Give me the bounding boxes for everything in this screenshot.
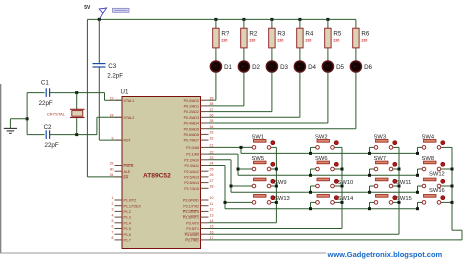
wire switch link row4 col2 xyxy=(334,201,342,203)
switch SW7 xyxy=(374,156,397,171)
crystal X1 xyxy=(70,109,85,117)
wire crystal top xyxy=(76,93,78,110)
switch SW3 xyxy=(374,134,397,149)
svg-text:1: 1 xyxy=(112,196,114,200)
svg-text:SW14: SW14 xyxy=(338,196,355,202)
junction C2-crystal xyxy=(75,133,78,136)
pin 11 P3.1/TXD xyxy=(183,202,213,208)
switch SW4 xyxy=(422,134,445,149)
wire switch link row4 col4 xyxy=(441,201,452,203)
svg-text:P1.0/T2: P1.0/T2 xyxy=(124,199,137,203)
wire jog col4 row3 xyxy=(418,186,423,192)
svg-text:10: 10 xyxy=(210,196,214,200)
svg-text:P2.0/A8: P2.0/A8 xyxy=(186,146,199,150)
svg-text:31: 31 xyxy=(110,173,114,177)
svg-text:P3.1/TXD: P3.1/TXD xyxy=(183,204,199,208)
junction rail R4 xyxy=(298,18,301,21)
pin 27 P2.6/A14 xyxy=(184,179,213,185)
pin 13 P3.3/INT1 xyxy=(183,213,214,219)
wire rail to R2 xyxy=(243,19,245,28)
wire R? to D1 xyxy=(215,48,217,61)
junction C1-crystal xyxy=(75,91,78,94)
svg-text:220: 220 xyxy=(277,39,283,43)
pin 30 ALE xyxy=(110,167,131,173)
wire ground tap xyxy=(10,119,27,128)
wire row3 bus xyxy=(231,191,418,193)
label AT89C52 xyxy=(143,172,171,179)
wire switch link row1 col4 xyxy=(441,146,452,148)
wire jog col3 row1 xyxy=(370,147,375,153)
resistor R2 xyxy=(241,28,258,48)
svg-text:P0.0/AD0: P0.0/AD0 xyxy=(184,99,199,103)
svg-text:19: 19 xyxy=(110,96,114,100)
svg-text:P2.4/A12: P2.4/A12 xyxy=(184,170,199,174)
wire P2.2 row3 feed xyxy=(209,160,253,193)
svg-text:P1.5: P1.5 xyxy=(124,227,131,231)
svg-text:R?: R? xyxy=(221,30,229,37)
svg-text:RST: RST xyxy=(124,139,132,143)
wire jog col2 row2 xyxy=(311,169,316,175)
svg-text:R2: R2 xyxy=(249,30,257,37)
wire column 3 to P3.6 xyxy=(209,147,400,234)
pin 16 P3.6/WR xyxy=(185,230,214,236)
switch SW8 xyxy=(422,156,445,171)
wire R2 to D2 xyxy=(243,48,245,61)
wire jog col2 row1 xyxy=(311,147,316,153)
svg-text:P3.5/T1: P3.5/T1 xyxy=(186,227,199,231)
pin 24 P2.3/A11 xyxy=(184,162,213,168)
wire P2.1 row2 feed xyxy=(209,154,253,175)
wire switch link row2 col3 xyxy=(393,168,399,170)
pin 28 P2.7/A15 xyxy=(184,185,213,191)
svg-text:P1.1/T2EX: P1.1/T2EX xyxy=(124,204,142,208)
wire C1 row xyxy=(27,93,122,101)
pin 19 XTAL1 xyxy=(110,96,135,102)
pin 32 P0.7/AD7 xyxy=(184,136,214,142)
svg-text:SW2: SW2 xyxy=(315,134,328,140)
svg-text:SW5: SW5 xyxy=(252,156,265,162)
svg-text:P3.0/RXD: P3.0/RXD xyxy=(183,199,199,203)
junction bus4 col2 xyxy=(309,207,312,210)
svg-text:26: 26 xyxy=(210,173,214,177)
junction bus1 col4 xyxy=(416,152,419,155)
junction col4 row4 xyxy=(451,201,454,204)
svg-text:SW4: SW4 xyxy=(422,134,435,140)
switch SW14 xyxy=(316,195,354,205)
svg-text:P0.6/AD6: P0.6/AD6 xyxy=(184,133,199,137)
switch SW5 xyxy=(252,156,275,171)
junction row3 feed xyxy=(230,185,233,188)
svg-text:P0.2/AD2: P0.2/AD2 xyxy=(184,110,199,114)
wire row2 bus xyxy=(238,174,418,176)
resistor R3 xyxy=(269,28,286,48)
junction rail R1 xyxy=(214,18,217,21)
junction col2 row3 xyxy=(341,185,344,188)
wire rail to EA pin31 xyxy=(87,19,122,177)
junction bus1 col3 xyxy=(368,152,371,155)
pin 35 P0.4/AD4 xyxy=(184,119,214,125)
ground xyxy=(4,128,17,133)
wire P2.0 row1 feed xyxy=(209,147,253,153)
svg-text:ALE: ALE xyxy=(124,170,131,174)
svg-text:SW15: SW15 xyxy=(396,196,412,202)
wire switch link row2 col1 xyxy=(271,168,277,170)
svg-text:R3: R3 xyxy=(277,30,285,37)
label C2 xyxy=(44,124,59,149)
svg-text:U1: U1 xyxy=(121,89,129,96)
svg-text:P1.7: P1.7 xyxy=(124,239,131,243)
svg-text:SW3: SW3 xyxy=(374,134,387,140)
junction bus2 col2 xyxy=(309,174,312,177)
svg-text:C3: C3 xyxy=(108,63,116,70)
svg-text:30: 30 xyxy=(110,167,114,171)
junction bus4 col4 xyxy=(416,207,419,210)
pin 18 XTAL2 xyxy=(110,114,135,120)
IC U1 AT89C52 body xyxy=(122,97,201,249)
junction rail R3 xyxy=(270,18,273,21)
svg-text:220: 220 xyxy=(333,39,339,43)
svg-text:P1.3: P1.3 xyxy=(124,216,131,220)
junction col1 row4 xyxy=(275,201,278,204)
svg-text:32: 32 xyxy=(210,136,214,140)
wire rail to R3 xyxy=(271,19,273,28)
svg-text:P3.3/INT1: P3.3/INT1 xyxy=(183,216,199,220)
svg-text:P2.3/A11: P2.3/A11 xyxy=(184,164,199,168)
pin 2 P1.1/T2EX xyxy=(112,202,142,208)
pin 7 P1.6 xyxy=(112,230,131,236)
svg-text:27: 27 xyxy=(210,179,214,183)
junction col4 row3 xyxy=(451,185,454,188)
wire jog col3 row4 xyxy=(370,202,375,208)
switch SW13 xyxy=(252,195,290,205)
svg-text:29: 29 xyxy=(110,162,114,166)
wire D3 to P0.2 xyxy=(209,72,272,112)
sheet edge line xyxy=(0,84,326,253)
junction ground tap xyxy=(26,117,29,120)
pin 23 P2.2/A10 xyxy=(184,156,213,162)
pin 22 P2.1/A9 xyxy=(186,150,213,156)
pin 31 EA xyxy=(110,173,129,179)
junction col3 row3 xyxy=(398,185,401,188)
wire D6 to P0.5 xyxy=(209,72,356,129)
pin 1 P1.0/T2 xyxy=(112,196,137,202)
wire R4 to D4 xyxy=(299,48,301,61)
wire D2 to P0.1 xyxy=(209,72,244,106)
junction 5V xyxy=(98,18,101,21)
svg-text:SW6: SW6 xyxy=(315,156,328,162)
wire switch link row4 col3 xyxy=(393,201,399,203)
wire crystal bottom xyxy=(76,118,78,135)
capacitor C2 xyxy=(46,130,49,139)
LED D6 xyxy=(350,61,372,72)
wire C2 row xyxy=(27,117,122,134)
wire C3 to RST pin9 xyxy=(99,67,122,140)
svg-text:R6: R6 xyxy=(361,30,369,37)
svg-text:12: 12 xyxy=(210,208,214,212)
svg-text:SW1: SW1 xyxy=(252,134,265,140)
pin 14 P3.4/T0 xyxy=(186,219,213,225)
resistor R? xyxy=(213,28,230,48)
svg-text:2.2pF: 2.2pF xyxy=(107,73,123,80)
svg-text:EA: EA xyxy=(124,176,129,180)
pin 25 P2.4/A12 xyxy=(184,167,213,173)
svg-text:2: 2 xyxy=(112,202,114,206)
wire R6 to D6 xyxy=(355,48,357,61)
junction col1 row2 xyxy=(275,168,278,171)
wire D5 to P0.4 xyxy=(209,72,328,123)
svg-text:6: 6 xyxy=(112,225,114,229)
wire R3 to D3 xyxy=(271,48,273,61)
wire jog col3 row2 xyxy=(370,169,375,175)
label CRYSTAL xyxy=(47,112,66,117)
svg-text:P1.4: P1.4 xyxy=(124,221,131,225)
resistor R5 xyxy=(325,28,342,48)
junction bus2 col4 xyxy=(416,174,419,177)
wire jog col3 row3 xyxy=(370,186,375,192)
junction col3 row2 xyxy=(398,168,401,171)
svg-text:13: 13 xyxy=(210,213,214,217)
wire rail to R4 xyxy=(299,19,301,28)
switch SW16 xyxy=(422,188,445,204)
svg-text:P3.4/T0: P3.4/T0 xyxy=(186,221,199,225)
pin 5 P1.4 xyxy=(112,219,131,225)
svg-text:CRYSTAL: CRYSTAL xyxy=(47,112,66,117)
svg-text:AT89C52: AT89C52 xyxy=(143,172,171,179)
pin 17 P3.7/RD xyxy=(185,236,213,242)
wire row4 bus xyxy=(225,208,418,210)
wire left leg xyxy=(26,93,28,135)
svg-text:D4: D4 xyxy=(308,64,316,71)
svg-text:3: 3 xyxy=(112,208,114,212)
svg-text:8: 8 xyxy=(112,236,114,240)
junction bus1 col2 xyxy=(309,152,312,155)
svg-text:9: 9 xyxy=(112,136,114,140)
LED D2 xyxy=(238,61,260,72)
svg-text:P3.2/INT0: P3.2/INT0 xyxy=(183,210,199,214)
junction col4 row2 xyxy=(451,168,454,171)
pin 29 PSEN xyxy=(110,162,134,168)
switch SW1 xyxy=(252,134,275,149)
capacitor C3 xyxy=(93,64,106,67)
svg-text:SW13: SW13 xyxy=(274,196,290,202)
svg-text:www.Gadgetronix.blogspot.com: www.Gadgetronix.blogspot.com xyxy=(327,250,443,259)
wire switch link row3 col1 xyxy=(271,185,277,187)
svg-text:11: 11 xyxy=(210,202,214,206)
junction rail R2 xyxy=(242,18,245,21)
svg-text:220: 220 xyxy=(221,39,227,43)
wire switch link row3 col3 xyxy=(393,185,399,187)
wire row1 bus xyxy=(241,152,418,154)
wire jog col2 row3 xyxy=(311,186,316,192)
svg-text:D2: D2 xyxy=(252,64,260,71)
svg-text:220: 220 xyxy=(305,39,311,43)
wire column 4 to P3.7 xyxy=(209,147,463,240)
svg-text:P0.5/AD5: P0.5/AD5 xyxy=(184,127,199,131)
svg-text:P0.7/AD7: P0.7/AD7 xyxy=(184,139,199,143)
wire column 2 to P3.5 xyxy=(209,147,343,228)
svg-text:33: 33 xyxy=(210,131,214,135)
pin 37 P0.2/AD2 xyxy=(184,108,214,114)
pin 39 P0.0/AD0 xyxy=(184,96,214,102)
svg-text:SW8: SW8 xyxy=(422,156,435,162)
wire jog col4 row2 xyxy=(418,169,423,175)
pin 38 P0.1/AD1 xyxy=(184,102,214,108)
svg-text:SW7: SW7 xyxy=(374,156,387,162)
wire rail to R5 xyxy=(327,19,329,28)
svg-text:P2.1/A9: P2.1/A9 xyxy=(186,153,199,157)
wire rail to R6 xyxy=(355,19,357,28)
resistor R4 xyxy=(297,28,314,48)
power +5V symbol xyxy=(84,5,129,19)
wire rail to R? xyxy=(215,19,217,28)
switch SW6 xyxy=(315,156,338,171)
junction col2 row4 xyxy=(341,201,344,204)
wire switch link row1 col1 xyxy=(271,146,277,148)
switch SW12 xyxy=(422,172,445,188)
LED D1 xyxy=(210,61,232,72)
svg-text:D6: D6 xyxy=(364,64,372,71)
wire switch link row2 col2 xyxy=(334,168,342,170)
junction bus3 col2 xyxy=(309,191,312,194)
switch SW15 xyxy=(374,195,412,205)
pin 21 P2.0/A8 xyxy=(186,144,213,150)
svg-text:P3.6/WR: P3.6/WR xyxy=(185,233,200,237)
junction row4 feed xyxy=(224,201,227,204)
junction row1 feed xyxy=(240,146,243,149)
LED D5 xyxy=(322,61,344,72)
svg-text:C2: C2 xyxy=(44,124,52,131)
junction row2 feed xyxy=(237,168,240,171)
wire 5V to C3 xyxy=(98,19,100,63)
svg-text:4: 4 xyxy=(112,213,114,217)
pin 10 P3.0/RXD xyxy=(183,196,213,202)
svg-text:P0.4/AD4: P0.4/AD4 xyxy=(184,122,199,126)
label C1 xyxy=(39,80,53,107)
wire switch link row3 col4 xyxy=(441,185,452,187)
junction bus3 col4 xyxy=(416,191,419,194)
switch SW9 xyxy=(252,178,286,188)
svg-text:P2.2/A10: P2.2/A10 xyxy=(184,158,199,162)
svg-text:P0.3/AD3: P0.3/AD3 xyxy=(184,116,199,120)
label U1 xyxy=(121,89,129,96)
svg-text:28: 28 xyxy=(210,185,214,189)
switch SW2 xyxy=(315,134,338,149)
wire jog col2 row4 xyxy=(311,202,316,208)
svg-text:R5: R5 xyxy=(333,30,341,37)
wire switch link row1 col2 xyxy=(334,146,342,148)
svg-text:SW11: SW11 xyxy=(396,180,411,186)
svg-text:SW16: SW16 xyxy=(429,188,445,194)
wire P2.3 row4 feed xyxy=(209,166,253,209)
pin 26 P2.5/A13 xyxy=(184,173,213,179)
LED D3 xyxy=(266,61,288,72)
svg-text:22pF: 22pF xyxy=(45,142,59,149)
capacitor C1 xyxy=(46,88,49,97)
pin 4 P1.3 xyxy=(112,213,131,219)
svg-text:P2.5/A13: P2.5/A13 xyxy=(184,176,199,180)
wire switch link row2 col4 xyxy=(441,168,452,170)
svg-text:P1.2: P1.2 xyxy=(124,210,131,214)
junction col3 row4 xyxy=(398,201,401,204)
pin 9 RST xyxy=(112,136,132,142)
junction col1 row3 xyxy=(275,185,278,188)
resistor R6 xyxy=(353,28,370,48)
label C3 xyxy=(107,63,123,79)
svg-text:5V: 5V xyxy=(84,5,91,11)
svg-text:PSEN: PSEN xyxy=(124,164,134,168)
junction bus2 col3 xyxy=(368,174,371,177)
wire 5V rail xyxy=(87,18,356,20)
wire D4 to P0.3 xyxy=(209,72,300,117)
wire R5 to D5 xyxy=(327,48,329,61)
svg-text:25: 25 xyxy=(210,167,214,171)
svg-text:XTAL2: XTAL2 xyxy=(124,116,135,120)
svg-text:220: 220 xyxy=(361,39,367,43)
caption url xyxy=(327,250,443,259)
svg-text:P1.6: P1.6 xyxy=(124,233,131,237)
pin 12 P3.2/INT0 xyxy=(183,208,214,214)
wire switch link row1 col3 xyxy=(393,146,399,148)
junction bus4 col3 xyxy=(368,207,371,210)
wire D1 to P0.0 xyxy=(209,72,216,100)
svg-text:P3.7/RD: P3.7/RD xyxy=(185,239,199,243)
svg-text:5: 5 xyxy=(112,219,114,223)
pin 8 P1.7 xyxy=(112,236,131,242)
pin 33 P0.6/AD6 xyxy=(184,131,214,137)
svg-text:C1: C1 xyxy=(41,80,49,87)
wire jog col4 row1 xyxy=(418,147,423,153)
pin 34 P0.5/AD5 xyxy=(184,125,214,131)
svg-text:P0.1/AD1: P0.1/AD1 xyxy=(184,105,199,109)
svg-text:XTAL1: XTAL1 xyxy=(124,99,135,103)
svg-text:SW9: SW9 xyxy=(274,180,287,186)
pin 36 P0.3/AD3 xyxy=(184,114,214,120)
svg-text:R4: R4 xyxy=(305,30,313,37)
svg-text:SW10: SW10 xyxy=(338,180,354,186)
svg-text:D1: D1 xyxy=(224,64,232,71)
svg-text:220: 220 xyxy=(249,39,255,43)
junction col2 row2 xyxy=(341,168,344,171)
LED D4 xyxy=(294,61,316,72)
wire switch link row3 col2 xyxy=(334,185,342,187)
svg-text:P2.7/A15: P2.7/A15 xyxy=(184,187,199,191)
svg-text:SW12: SW12 xyxy=(429,172,445,178)
svg-text:D5: D5 xyxy=(336,64,344,71)
junction bus3 col3 xyxy=(368,191,371,194)
junction rail R5 xyxy=(326,18,329,21)
pin 15 P3.5/T1 xyxy=(186,225,213,231)
svg-text:D3: D3 xyxy=(280,64,288,71)
svg-text:P2.6/A14: P2.6/A14 xyxy=(184,181,199,185)
wire jog col4 row4 xyxy=(418,202,423,208)
pin 3 P1.2 xyxy=(112,208,131,214)
pin 6 P1.5 xyxy=(112,225,131,231)
wire column 1 to P3.4 xyxy=(209,147,277,222)
switch SW11 xyxy=(374,178,411,188)
switch SW10 xyxy=(316,178,354,188)
svg-text:18: 18 xyxy=(110,114,114,118)
svg-text:22pF: 22pF xyxy=(39,100,53,107)
svg-text:7: 7 xyxy=(112,230,114,234)
wire switch link row4 col1 xyxy=(271,201,277,203)
